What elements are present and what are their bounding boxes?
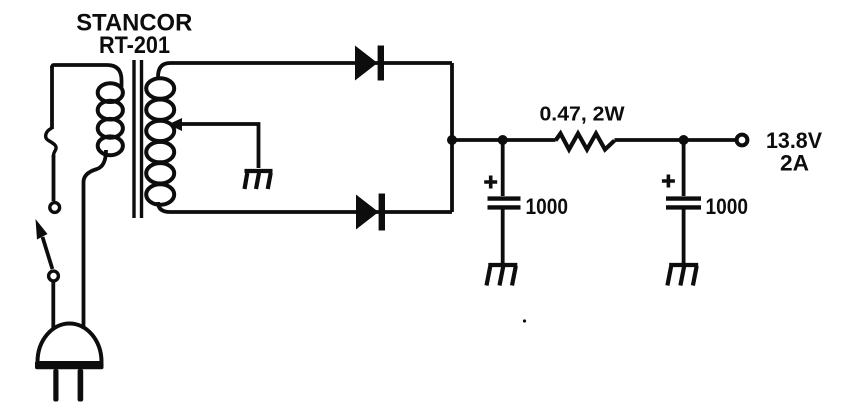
svg-text:13.8V: 13.8V [766, 128, 822, 153]
svg-text:RT-201: RT-201 [99, 32, 170, 59]
svg-text:1000: 1000 [526, 194, 569, 219]
svg-text:0.47, 2W: 0.47, 2W [540, 103, 626, 126]
svg-text:2A: 2A [780, 151, 809, 176]
svg-text:1000: 1000 [706, 194, 749, 219]
